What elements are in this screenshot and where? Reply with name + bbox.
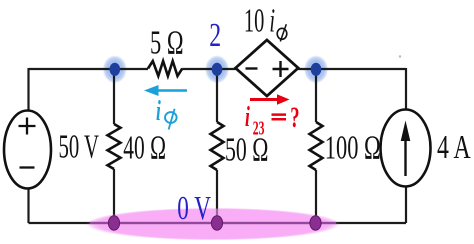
current arrow i_phi [156,89,187,91]
voltage source V1 plus sign [19,118,36,135]
wire left vertical upper [27,68,29,111]
current source I1 4A body [381,110,431,187]
resistor 5ohm [148,61,182,76]
voltage source V1 50V body [4,111,51,189]
resistor 100ohm [310,122,323,170]
wire branch node2 upper [216,69,218,122]
wire right vertical lower [405,187,407,224]
svg-text:4 A: 4 A [437,129,471,166]
svg-text:0 V: 0 V [177,190,211,227]
node 1 highlight glow [103,55,127,83]
wire bottom [29,222,407,224]
ground node dot middle [211,216,222,230]
svg-text:40 Ω: 40 Ω [123,130,166,167]
dependent source U1 plus sign [273,61,289,77]
wire top right [298,68,406,70]
voltage source V1 minus sign [20,166,35,168]
wire right vertical upper [405,68,407,110]
svg-text:i: i [245,102,250,133]
dependent source U1 minus sign [246,67,258,69]
wire top middle [182,68,235,70]
wire branch node3 upper [315,69,317,122]
wire left vertical lower [27,189,29,224]
node 2 dot [212,63,223,76]
svg-text:50 V: 50 V [59,129,100,166]
ground node dot right [310,216,321,230]
node 1 dot [110,63,121,76]
stray mark [399,55,401,57]
current source I1 arrow shaft [404,139,406,176]
wire branch node3 lower [315,170,317,223]
ground node dot left [108,216,119,230]
node 3 dot [311,63,322,76]
svg-text:23: 23 [253,119,265,140]
current source I1 arrow head [401,121,411,142]
label equals sign [272,115,287,120]
node 2 highlight glow [205,55,229,83]
node 0 highlight (pink ellipse, under layer) [86,208,340,240]
svg-text:100 Ω: 100 Ω [325,129,381,167]
node 3 highlight glow [304,55,328,83]
wire branch node1 upper [113,69,115,124]
svg-text:10 i: 10 i [244,2,275,40]
wire bottom (tinted inside node 0 highlight) [90,222,336,224]
node 0 highlight overlay (pink, translucent) [86,208,340,240]
current arrow i_23 [250,98,279,101]
resistor 40ohm [108,124,121,169]
svg-text:?: ? [290,102,299,134]
svg-text:5 Ω: 5 Ω [150,24,183,62]
wire branch node2 lower [216,170,218,223]
svg-text:i: i [156,96,161,127]
wire top left [29,68,149,70]
resistor 50ohm [211,122,224,170]
dependent source U1 diamond body [236,40,299,96]
svg-text:2: 2 [209,17,221,54]
wire branch node1 lower [113,169,115,223]
